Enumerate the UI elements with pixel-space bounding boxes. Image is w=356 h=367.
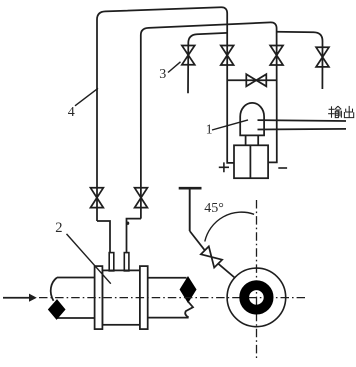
svg-text:45°: 45°: [204, 201, 224, 216]
svg-text:1: 1: [206, 121, 213, 136]
svg-text:3: 3: [159, 67, 166, 82]
svg-text:2: 2: [55, 220, 62, 236]
svg-text:4: 4: [68, 105, 75, 120]
